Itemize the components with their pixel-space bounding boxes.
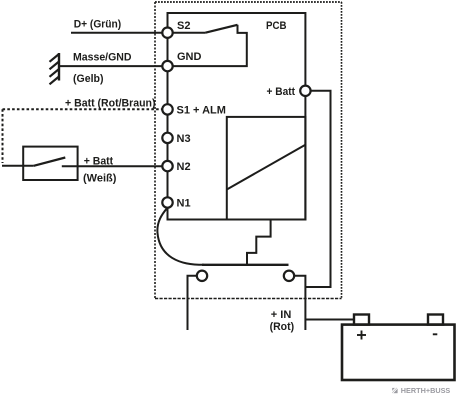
svg-text:+ Batt (Rot/Braun): + Batt (Rot/Braun) xyxy=(65,98,156,110)
svg-text:(Gelb): (Gelb) xyxy=(73,73,104,85)
svg-text:(Rot): (Rot) xyxy=(270,321,295,333)
svg-text:N2: N2 xyxy=(177,161,191,173)
svg-text:+ Batt: + Batt xyxy=(267,86,296,98)
svg-text:GND: GND xyxy=(177,51,202,63)
svg-text:S1 + ALM: S1 + ALM xyxy=(177,104,226,116)
svg-text:+ IN: + IN xyxy=(271,309,292,321)
svg-text:D+ (Grün): D+ (Grün) xyxy=(74,18,122,30)
svg-text:N3: N3 xyxy=(177,133,191,145)
svg-text:S2: S2 xyxy=(177,20,190,32)
svg-text:N1: N1 xyxy=(177,198,191,210)
svg-text:+ Batt: + Batt xyxy=(84,155,114,167)
svg-text:(Weiß): (Weiß) xyxy=(83,172,117,184)
svg-text:Masse/GND: Masse/GND xyxy=(73,52,132,64)
svg-text:PCB: PCB xyxy=(266,20,287,32)
svg-text:HERTH+BUSS: HERTH+BUSS xyxy=(401,386,451,395)
